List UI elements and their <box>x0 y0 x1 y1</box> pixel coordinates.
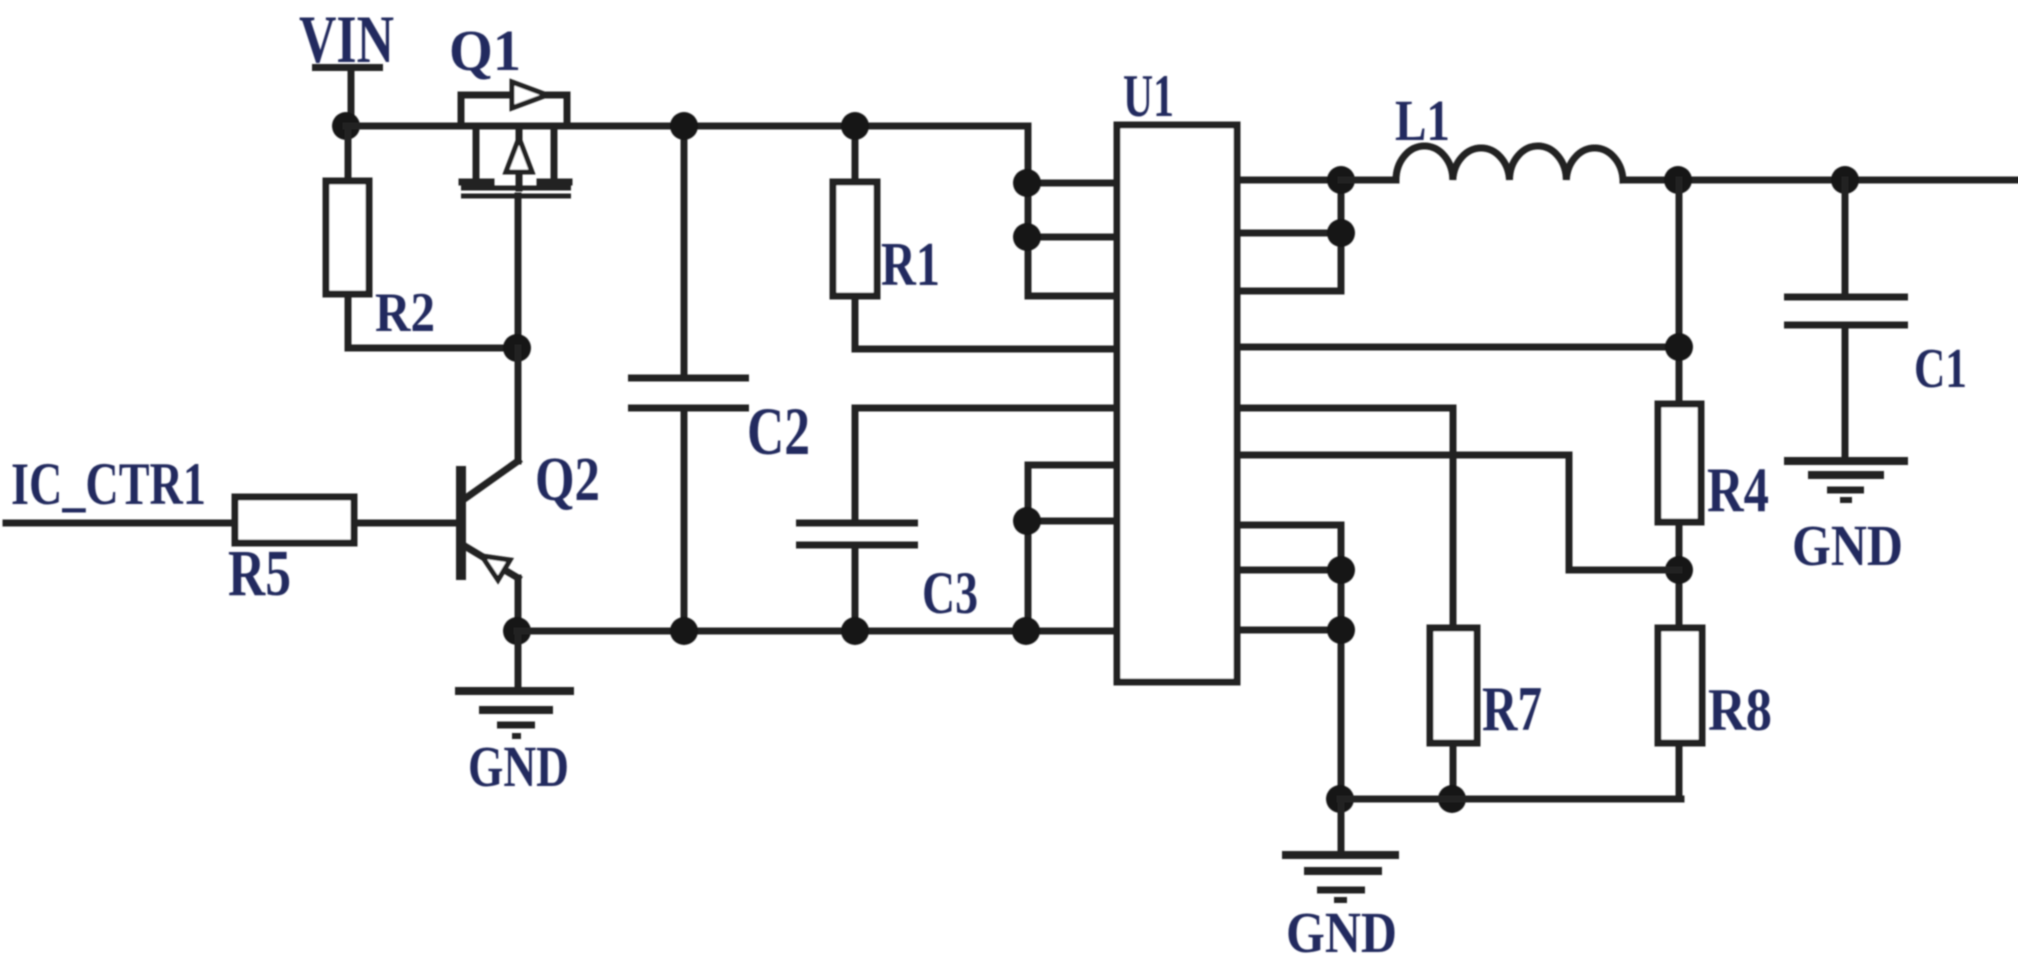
transistor Q2 <box>461 348 600 631</box>
ground GND at Q2 emitter <box>455 631 574 799</box>
node U1 right pin2 junction <box>1327 219 1355 247</box>
svg-text:U1: U1 <box>1123 63 1174 129</box>
node R7 bottom junction <box>1438 785 1466 813</box>
svg-text:GND: GND <box>468 734 569 799</box>
ground GND at C1 <box>1784 461 1908 578</box>
capacitor C3 <box>796 408 1117 631</box>
node R4 top junction <box>1665 333 1693 361</box>
node U1 right pin7 junction <box>1327 556 1355 584</box>
capacitor C2 <box>628 126 810 631</box>
wire U1 left pin group top <box>1028 126 1117 296</box>
node VIN junction <box>332 112 360 140</box>
svg-text:R5: R5 <box>228 537 291 610</box>
resistor R8 <box>1658 628 1772 743</box>
svg-text:C2: C2 <box>747 393 810 469</box>
node U1 left pin2 junction <box>1013 223 1041 251</box>
capacitor C1 <box>1784 180 1967 461</box>
inductor L1 <box>1395 88 1623 180</box>
node ground bus junction <box>1012 617 1040 645</box>
node U1 left pin1 junction <box>1013 169 1041 197</box>
svg-text:R8: R8 <box>1708 677 1772 743</box>
svg-text:R2: R2 <box>375 282 435 344</box>
svg-text:C1: C1 <box>1914 338 1967 400</box>
node Q2 emitter junction <box>503 617 531 645</box>
wire VIN stem <box>348 70 355 126</box>
resistor R2 <box>326 126 518 348</box>
svg-text:GND: GND <box>1792 513 1903 578</box>
svg-text:IC_CTR1: IC_CTR1 <box>11 451 206 517</box>
wire R7 bottom <box>1450 743 1457 799</box>
net label VIN <box>299 1 394 77</box>
node C3 bottom junction <box>841 617 869 645</box>
wire R5 to Q2 base <box>354 520 461 527</box>
wire U1 right pin group bottom <box>1237 525 1341 799</box>
svg-text:R4: R4 <box>1707 454 1769 525</box>
node L1 output junction <box>1664 166 1692 194</box>
node U1 right pin1 junction <box>1327 166 1355 194</box>
wire U1 left pin group bottom <box>1028 465 1117 631</box>
svg-text:R1: R1 <box>881 231 940 299</box>
node U1 right pin8 junction <box>1327 616 1355 644</box>
resistor R7 <box>1430 628 1542 744</box>
wire switch node to L1 <box>1341 177 1396 184</box>
resistor R1 <box>833 126 1117 349</box>
resistor R5 <box>228 497 354 610</box>
node C1 top junction <box>1831 166 1859 194</box>
wire top rail <box>346 123 1028 130</box>
wire U1 pin to R4/R8 junction <box>1237 455 1679 570</box>
svg-text:Q2: Q2 <box>535 446 600 514</box>
wire IC_CTR1 to R5 <box>6 520 235 527</box>
svg-text:GND: GND <box>1286 900 1397 965</box>
node C2 bottom junction <box>670 617 698 645</box>
wire U1 right pin group top <box>1237 180 1341 291</box>
wire output to R4 <box>1676 180 1683 404</box>
svg-text:L1: L1 <box>1395 88 1450 153</box>
node R1 top junction <box>841 112 869 140</box>
wire ground bus <box>517 628 1117 635</box>
svg-text:R7: R7 <box>1482 673 1542 744</box>
transistor Q1 <box>449 18 571 348</box>
wire bottom ground bus <box>1340 796 1681 803</box>
node U1 left pin7 junction <box>1013 507 1041 535</box>
wire R4 to R8 <box>1676 522 1683 628</box>
wire U1 pin FB to R4 top <box>1237 344 1679 351</box>
svg-text:Q1: Q1 <box>449 18 521 83</box>
node R2/Q1 gate junction <box>503 334 531 362</box>
node C2 top junction <box>670 112 698 140</box>
op-amp U1 <box>1117 63 1237 682</box>
wire L1 to output <box>1623 177 2018 184</box>
ground GND bottom <box>1282 799 1399 965</box>
node bottom bus left junction <box>1326 785 1354 813</box>
node R4/R8 junction <box>1665 556 1693 584</box>
wire U1 pin to R7 <box>1237 408 1453 628</box>
resistor R4 <box>1658 404 1769 525</box>
svg-text:C3: C3 <box>922 560 978 626</box>
wire R8 bottom <box>1676 743 1683 799</box>
